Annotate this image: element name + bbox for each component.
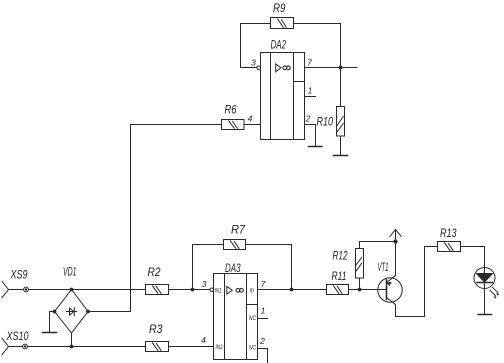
resistor R6 [222, 103, 245, 130]
wire DA2 pin3 feedback riser [241, 24, 271, 68]
node R7 right branch [290, 288, 294, 292]
node power junction [393, 239, 397, 243]
connector XS9 [2, 268, 28, 298]
diode bridge VD1 [55, 265, 89, 334]
node R7 left branch [191, 288, 195, 292]
op-amp DA2 [257, 38, 305, 140]
wire riser from bridge to R6 rail [88, 125, 131, 312]
svg-text:3: 3 [202, 279, 207, 289]
pin 4 DA3 [201, 335, 206, 345]
pin 1 DA2 stub [305, 86, 316, 97]
pin 1 DA3 stub [258, 306, 268, 319]
resistor R3 [146, 322, 169, 352]
resistor R9 [271, 1, 294, 29]
node bridge right [86, 310, 90, 314]
wire VT1 collector to R13 [396, 247, 438, 317]
ground below bridge [43, 332, 57, 334]
svg-text:4: 4 [201, 335, 206, 345]
svg-text:3: 3 [251, 58, 256, 68]
wire R7 left branch [193, 245, 224, 290]
wire bridge left to ground [50, 312, 55, 333]
svg-text:DA3: DA3 [225, 261, 241, 275]
wire DA3 output to R11 [258, 289, 327, 291]
wire R7 right branch [246, 245, 292, 290]
wire XS9 to R2 [28, 289, 145, 291]
resistor R13 [438, 226, 461, 252]
svg-text:R9: R9 [273, 1, 286, 15]
transistor VT1 [378, 260, 403, 305]
svg-text:VT1: VT1 [378, 260, 389, 274]
svg-text:IN2: IN2 [216, 344, 223, 351]
svg-text:7: 7 [307, 58, 312, 68]
wire R2 to DA3 pin 3 [169, 289, 210, 291]
svg-text:R7: R7 [231, 223, 246, 237]
svg-text:1: 1 [261, 306, 266, 316]
ground below R10 [334, 155, 348, 157]
wire R13 to LED [461, 247, 485, 268]
power arrow [390, 230, 401, 242]
svg-text:2: 2 [259, 336, 265, 346]
LED [474, 268, 499, 299]
pin 3 DA2 [251, 58, 256, 68]
pin 2 DA3 stub going down [258, 336, 268, 363]
svg-text:7: 7 [261, 279, 266, 289]
ground below DA2 pin 2 [309, 146, 323, 148]
wire R11 to VT1 base [349, 289, 387, 291]
svg-text:XS10: XS10 [6, 329, 29, 343]
wire DA2 output pin7 [305, 67, 358, 69]
resistor R10 [317, 107, 345, 137]
op-amp DA3 [210, 261, 258, 360]
resistor R12 [333, 249, 364, 290]
svg-text:XS9: XS9 [10, 268, 28, 282]
svg-text:IN1: IN1 [215, 287, 222, 294]
node R12 bottom [358, 288, 362, 292]
pin 7 DA2 [307, 58, 312, 68]
wire XS10 to R3 [27, 346, 145, 348]
svg-text:4: 4 [248, 114, 253, 124]
node bridge bottom on XS10 rail [70, 345, 74, 349]
pin 4 DA2 [244, 114, 261, 125]
resistor R2 [146, 265, 169, 295]
svg-text:R12: R12 [333, 249, 348, 263]
svg-text:NC: NC [249, 315, 256, 322]
wire bridge bottom to XS10 rail [71, 333, 73, 347]
node bridge left [53, 310, 57, 314]
wire output node to R10 [340, 68, 342, 107]
svg-text:R6: R6 [225, 103, 237, 117]
svg-text:NC: NC [249, 345, 256, 352]
node output DA2 junction [339, 66, 343, 70]
connector XS10 [2, 329, 29, 355]
svg-text:1: 1 [308, 86, 313, 96]
svg-text:R3: R3 [149, 322, 163, 336]
resistor R7 [224, 223, 247, 250]
svg-text:R11: R11 [332, 269, 347, 283]
pin 2 DA2 stub to ground [305, 114, 316, 147]
ground below LED [478, 314, 492, 316]
wire LED to ground [484, 289, 486, 315]
svg-text:R10: R10 [317, 115, 334, 129]
svg-text:DA2: DA2 [271, 38, 287, 52]
wire R9 to output node [294, 24, 341, 68]
wire VT1 emitter to power node [395, 242, 397, 276]
svg-text:VD1: VD1 [63, 265, 77, 279]
wire R6 to riser [131, 124, 222, 126]
pin 7 DA3 [261, 279, 266, 289]
svg-text:R2: R2 [148, 265, 161, 279]
wire R10 to ground [340, 136, 342, 156]
node bridge top [70, 288, 74, 292]
svg-text:R13: R13 [440, 226, 457, 240]
resistor R11 [327, 269, 349, 295]
wire R3 to DA3 pin 4 [169, 346, 214, 348]
pin 3 DA3 [202, 279, 207, 289]
svg-text:m: m [250, 287, 254, 294]
svg-text:2: 2 [305, 114, 311, 124]
wire R12 top to power node [360, 242, 396, 249]
